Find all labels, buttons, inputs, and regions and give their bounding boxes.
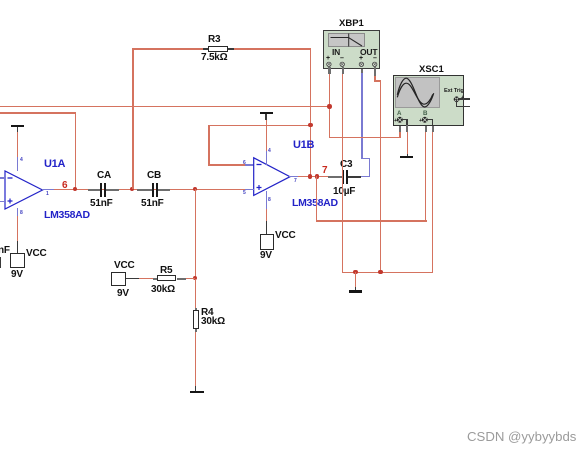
wire: scope B- drop [432, 131, 433, 273]
label IN [332, 47, 340, 57]
junction: IN+ / input net [327, 104, 331, 108]
resistor R3 [203, 48, 209, 50]
capacitor CA [88, 189, 101, 191]
label 51nF (CB) [141, 198, 164, 209]
label R4 [201, 307, 213, 318]
wire: net7 riser to scope B+ [316, 176, 317, 222]
wire: bottom common rail [342, 272, 433, 273]
wire: blue link C3 to XBP1 OUT+ [361, 176, 370, 177]
capacitor C3 [328, 176, 343, 178]
wire: XBP1 IN+ drop [328, 67, 330, 74]
resistor R4 [195, 308, 197, 310]
junction: rail / ground [353, 270, 357, 274]
wire: B terminal link [427, 119, 433, 121]
polarity marks XBP1 [326, 55, 330, 62]
wire: R3 right horizontal [234, 48, 311, 49]
label 30kΩ (R4) [201, 316, 225, 327]
clipped capacitor plate at canvas edge [0, 257, 1, 268]
oscilloscope XSC1 [393, 75, 464, 126]
label nF (clipped capacitor value at canvas edge) [0, 245, 10, 256]
wire: rail ground stem [355, 272, 356, 288]
wire: U1A -input stub [0, 177, 6, 178]
label U1B [293, 139, 314, 151]
ground below R4 [190, 391, 204, 393]
wire: divider vertical (net6 to R4) [195, 189, 196, 279]
wire: R3 right vertical leg to net 7 [310, 48, 311, 178]
wire: R3 left horizontal [132, 48, 203, 49]
op-amp U1B [248, 150, 308, 210]
wire: net 6 horizontal (U1A out to U1B +) [54, 189, 246, 190]
wire: VCC to R5 [126, 278, 139, 280]
label OUT [360, 47, 377, 57]
label CB [147, 170, 161, 181]
wire: U1B +input stub [245, 189, 254, 190]
ground above U1A [11, 125, 24, 127]
label XSC1 [419, 64, 444, 75]
wire: XBP1 IN- drop [342, 67, 344, 74]
wire: U1A pin4 to ground [17, 132, 18, 158]
pin label 8 (U1B) [268, 197, 271, 203]
junction: R5 / R4 [193, 276, 197, 280]
label VCC (U1A) [26, 248, 47, 259]
terminal B [419, 114, 432, 126]
wire: to scope A+ [329, 137, 401, 138]
wire: A terminal link to ground drop [402, 119, 408, 121]
terminals XBP1 [323, 58, 380, 69]
wire: U1B pin8 down [266, 191, 267, 209]
label 10µF (C3) [333, 186, 355, 197]
VCC supply square (U1A) [10, 253, 25, 268]
label 9V (U1A) [11, 269, 23, 280]
op-amp U1A [0, 150, 60, 220]
junction: net7 / R3 [308, 174, 312, 178]
junction: R3 left leg [130, 187, 134, 191]
label VCC (U1B) [275, 230, 296, 241]
label 30kΩ (R5) [151, 284, 175, 295]
ground above U1B [260, 112, 273, 114]
label CA [97, 170, 111, 181]
wire: U1A +input stub [0, 201, 6, 202]
bode plotter XBP1 [323, 30, 380, 69]
wire: R4 down to ground [195, 332, 196, 386]
capacitor CB [137, 189, 152, 191]
terminal Ext Trig [451, 94, 463, 105]
wire: R3 left vertical leg [132, 48, 133, 189]
VCC supply square (U1B) [260, 234, 274, 250]
VCC supply square (R5) [111, 272, 126, 286]
wire: U1B feedback horizontal [208, 125, 310, 126]
label XBP1 [339, 18, 364, 29]
label 9V (R5) [117, 288, 129, 299]
net label 7 [322, 165, 328, 176]
ground below rail [349, 290, 362, 292]
label 9V (U1B) [260, 250, 272, 261]
junction: divider tap [193, 187, 197, 191]
wire: R5 right to junction [186, 278, 195, 279]
junction: feedback / R3 leg [308, 123, 312, 127]
wire: U1A output stub (blue) [42, 189, 55, 190]
pin label 5 (U1B +) [243, 190, 246, 196]
wire: U1B output stub [289, 176, 298, 177]
wire: net 7 out of U1B [298, 176, 328, 177]
junction: net7 / scope B+ riser [315, 174, 319, 178]
wire: U1A pin8 down [17, 208, 18, 216]
pin label 7 (U1B out) [294, 178, 297, 184]
junction: feedback tap [73, 187, 77, 191]
net label 6 [62, 180, 68, 191]
label 7.5kΩ (R3) [201, 52, 227, 63]
pin label 6 (U1B -) [243, 160, 246, 166]
label R5 [160, 265, 172, 276]
wire: input net horizontal (from off-canvas source) [0, 106, 330, 107]
ground below scope A [400, 156, 413, 158]
terminal A [394, 114, 407, 126]
wire: net 6 feed horizontal from off-canvas [0, 112, 76, 113]
pin label 4 (U1A) [20, 157, 23, 163]
junction: rail / OUT- [378, 270, 382, 274]
wire: U1B pin4 to ground [266, 120, 267, 151]
wire: XBP1 OUT- jog down [374, 67, 376, 76]
pin label 4 (U1B) [268, 148, 271, 154]
wire: into U1B -input [208, 164, 245, 165]
label LM358AD (U1B) [292, 197, 338, 209]
label A [397, 110, 401, 117]
label R3 [208, 34, 220, 45]
label C3 [340, 159, 352, 170]
polarity marks scope A/B [394, 118, 397, 124]
label Ext Trig [444, 88, 464, 94]
watermark [467, 429, 576, 444]
label B [423, 110, 427, 117]
label LM358AD (U1A) [44, 209, 90, 221]
label 51nF (CA) [90, 198, 113, 209]
label U1A [44, 158, 65, 170]
resistor R5 [153, 278, 157, 280]
label VCC (R5) [114, 260, 135, 271]
pin label 8 (U1A) [20, 210, 23, 216]
wire: U1B feedback vertical [208, 125, 209, 165]
wire: junction to R4 [195, 279, 196, 309]
pin label 1 (U1A output) [46, 191, 49, 197]
wire: net 6 feed vertical drop [75, 112, 76, 190]
wire: ext trig stubs [459, 98, 469, 100]
